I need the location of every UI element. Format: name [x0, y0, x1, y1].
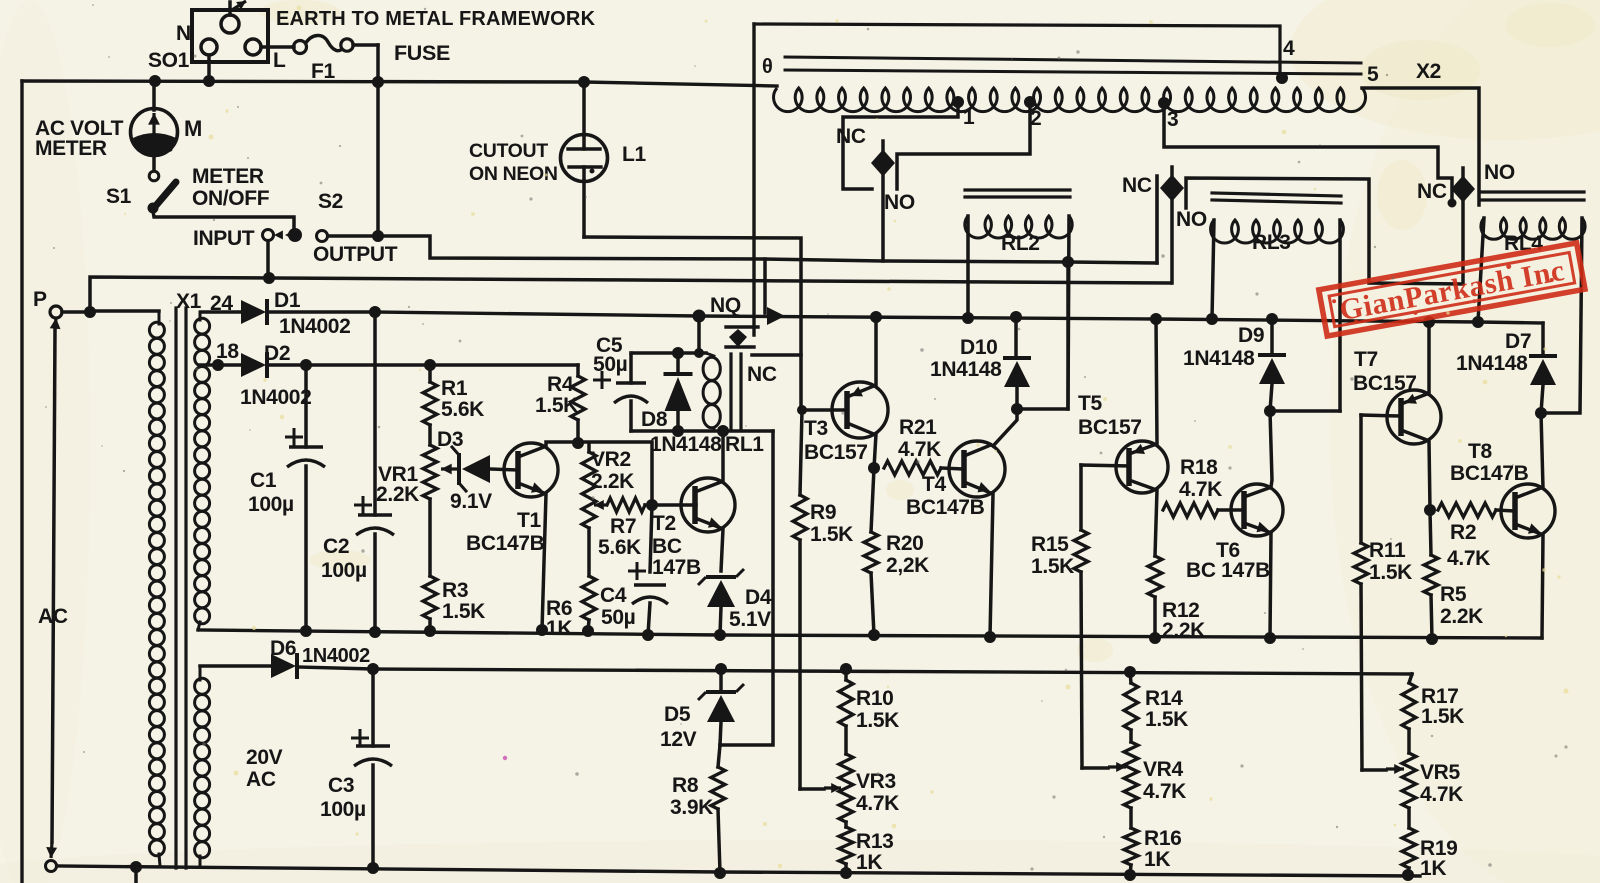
svg-text:1K: 1K — [546, 617, 572, 640]
relay coil RL4 — [1481, 218, 1585, 239]
label D9 — [1238, 324, 1264, 347]
wire output tap down — [763, 259, 767, 313]
label CUTOUT ON NEON — [469, 140, 558, 185]
svg-text:D9: D9 — [1238, 324, 1264, 347]
junction P node — [84, 306, 96, 318]
wire T4 collector — [993, 409, 1017, 446]
svg-text:1.5K: 1.5K — [1145, 708, 1188, 731]
zener D3 — [441, 447, 518, 491]
svg-text:4.7K: 4.7K — [1420, 783, 1463, 806]
junction C3 top — [367, 663, 379, 675]
junction T3 base node — [797, 405, 807, 415]
label NC1 — [836, 125, 866, 148]
svg-text:2,2K: 2,2K — [886, 554, 929, 577]
transistor T7 — [1387, 390, 1441, 444]
svg-text:D7: D7 — [1505, 330, 1531, 353]
wire rail NQ — [269, 312, 1543, 323]
svg-text:BC147B: BC147B — [1450, 462, 1529, 485]
label R18 — [1179, 456, 1222, 501]
relay coil RL3 — [1211, 220, 1344, 243]
junction T7 collector — [1424, 504, 1436, 516]
label FUSE — [394, 41, 450, 65]
contact RL3 pole — [1160, 167, 1184, 283]
label R5 — [1440, 583, 1483, 628]
junction R1 tap — [424, 359, 436, 371]
meter M — [131, 83, 178, 170]
svg-text:VR2: VR2 — [591, 448, 631, 471]
svg-text:T2: T2 — [652, 512, 676, 535]
svg-text:12V: 12V — [660, 728, 697, 751]
wiper VR4 — [1108, 762, 1126, 772]
svg-text:D1: D1 — [274, 289, 301, 312]
potentiometer VR3 — [839, 726, 853, 822]
svg-text:SO1: SO1 — [148, 49, 190, 72]
label T3 — [804, 417, 828, 440]
label D7 — [1505, 330, 1531, 353]
label S2 — [318, 190, 343, 213]
label P — [33, 288, 47, 311]
label T6 type — [1186, 559, 1270, 582]
svg-text:100µ: 100µ — [320, 798, 366, 821]
svg-text:θ: θ — [762, 56, 772, 78]
junction T3 collector — [868, 462, 880, 474]
wire fuse down to output node — [376, 45, 380, 236]
svg-text:T3: T3 — [804, 417, 828, 440]
junction coil top — [694, 348, 704, 358]
resistor R2 — [1438, 503, 1515, 517]
resistor R9 — [793, 410, 807, 789]
transistor T8 — [1501, 484, 1555, 538]
junction meter tap — [149, 75, 161, 87]
junction R3 ground — [424, 625, 436, 637]
junction input rail — [263, 272, 275, 284]
label R19 — [1420, 837, 1457, 880]
label F1 — [311, 60, 335, 83]
diode D2 — [224, 352, 267, 378]
label R3 — [442, 579, 485, 623]
svg-text:R8: R8 — [672, 774, 699, 797]
diode D6 — [200, 653, 297, 679]
label NO2 — [1176, 208, 1207, 231]
label RL1 — [725, 433, 764, 456]
junction T2 base node — [646, 499, 658, 511]
resistor R14 — [1124, 672, 1138, 730]
junction D4 ground — [714, 629, 726, 641]
svg-text:D3: D3 — [437, 428, 463, 451]
junction R4 bottom — [572, 437, 584, 449]
wiper VR3 — [824, 783, 841, 793]
wire NQ to coil — [697, 318, 701, 353]
label NC2 — [1122, 174, 1152, 197]
tap 18 wire — [200, 363, 218, 367]
junction bottom stub — [130, 861, 142, 883]
label D4 value — [729, 608, 771, 631]
transistor T2 — [681, 478, 735, 532]
wire T3 collector — [874, 434, 876, 468]
svg-text:METER: METER — [192, 165, 264, 188]
node INPUT — [263, 230, 274, 241]
svg-text:RL2: RL2 — [1001, 232, 1040, 255]
transistor T6 — [1231, 484, 1283, 536]
label X1 — [176, 290, 202, 313]
svg-text:BC157: BC157 — [804, 441, 868, 464]
junction D8 bottom — [672, 425, 684, 437]
svg-text:1N4002: 1N4002 — [279, 315, 350, 338]
svg-text:R21: R21 — [899, 416, 937, 439]
ac source arrow — [46, 318, 60, 858]
label T7 type — [1353, 372, 1417, 395]
transistor T1 — [504, 443, 558, 497]
label L — [273, 49, 286, 72]
capacitor C3 — [351, 669, 392, 868]
svg-text:P: P — [33, 288, 47, 311]
label D6 value — [302, 645, 370, 667]
svg-text:ON NEON: ON NEON — [469, 163, 558, 185]
svg-text:100µ: 100µ — [321, 559, 367, 582]
resistor R13 — [839, 822, 853, 873]
svg-text:NC: NC — [836, 125, 866, 148]
wire RL2 left lead — [966, 216, 970, 318]
label D5 — [664, 703, 691, 726]
transformer X1 primary — [149, 311, 164, 866]
label R6 — [546, 597, 572, 640]
diode D8 — [664, 353, 693, 431]
svg-text:100µ: 100µ — [248, 493, 294, 516]
svg-text:R13: R13 — [856, 830, 893, 853]
relay RL3 core — [1212, 193, 1341, 203]
junction R20 ground — [868, 629, 880, 641]
junction T3 emitter rail — [870, 311, 882, 323]
junction T7 emitter rail — [1423, 316, 1435, 328]
contact RL3 NO — [1186, 178, 1462, 284]
wire RL2 right lead — [1068, 216, 1069, 409]
label N — [176, 22, 191, 45]
wire INPUT down — [266, 241, 270, 278]
wire T7 collector — [1429, 441, 1430, 510]
svg-text:NO: NO — [884, 191, 915, 214]
svg-text:5.6K: 5.6K — [441, 398, 484, 421]
svg-text:METER: METER — [35, 137, 107, 160]
node P — [50, 306, 62, 318]
junction D10 rail — [1010, 311, 1022, 323]
label R1 — [441, 377, 484, 421]
label C2 — [321, 535, 367, 582]
wire tap2 to NO1 — [897, 102, 1030, 189]
label AC VOLT METER — [35, 117, 124, 160]
label D10 value — [930, 358, 1002, 381]
svg-text:5.6K: 5.6K — [598, 536, 641, 559]
wire T3 base — [802, 408, 846, 412]
label 24 — [210, 292, 233, 315]
junction R12 ground — [1149, 632, 1161, 644]
diode D9 — [1258, 319, 1286, 411]
label VR1 — [376, 463, 419, 506]
svg-text:L1: L1 — [622, 143, 646, 166]
svg-text:50µ: 50µ — [593, 353, 627, 376]
label NQ — [710, 294, 741, 317]
label D2 — [264, 342, 290, 365]
svg-text:T8: T8 — [1468, 440, 1492, 463]
resistor R18 — [1163, 503, 1244, 517]
wire T1 emitter — [542, 494, 546, 630]
wire VR2-R6 — [587, 528, 591, 576]
label D3 — [437, 428, 463, 451]
wire T6 collector to RL3 — [1270, 409, 1340, 413]
junction fuse-rail — [372, 76, 384, 88]
label T1 type — [466, 532, 545, 555]
svg-text:R14: R14 — [1145, 687, 1183, 710]
svg-text:VR5: VR5 — [1420, 761, 1460, 784]
svg-text:9.1V: 9.1V — [450, 490, 492, 513]
svg-text:FUSE: FUSE — [394, 41, 450, 65]
svg-text:S2: S2 — [318, 190, 343, 213]
label NC3 — [1417, 180, 1447, 203]
svg-text:T1: T1 — [517, 509, 541, 532]
label D9 value — [1183, 347, 1255, 370]
label VR2 — [591, 448, 634, 493]
svg-text:X2: X2 — [1416, 60, 1441, 83]
svg-text:1K: 1K — [1420, 857, 1446, 880]
svg-text:C3: C3 — [328, 774, 354, 797]
relay RL4 core — [1482, 192, 1584, 200]
svg-text:R18: R18 — [1180, 456, 1218, 479]
label D8 — [641, 408, 668, 431]
label NO3 — [1484, 161, 1515, 184]
wire T7 emitter — [1427, 323, 1431, 394]
resistor R5 — [1424, 510, 1438, 639]
junction D10 bottom — [1011, 403, 1023, 415]
label R12 — [1162, 599, 1205, 642]
svg-text:R5: R5 — [1440, 583, 1467, 606]
paper tint patches — [260, 0, 1595, 662]
svg-text:NC: NC — [1122, 174, 1152, 197]
svg-text:1N4148: 1N4148 — [1456, 352, 1528, 375]
wire RL1 top — [631, 351, 706, 355]
wire T5 emitter — [1156, 320, 1157, 444]
wiper VR2 — [594, 500, 607, 510]
arrow output onto rail — [767, 307, 785, 325]
svg-text:NQ: NQ — [710, 294, 741, 317]
svg-text:R7: R7 — [610, 515, 636, 538]
junction socket N tap — [203, 75, 215, 87]
transformer X1 lower secondary — [195, 666, 210, 866]
junction RL4 rail — [1472, 316, 1484, 328]
label T5 — [1078, 392, 1102, 415]
label VR3 — [856, 770, 899, 815]
label D2 value — [240, 386, 311, 409]
svg-text:NO: NO — [1484, 161, 1515, 184]
wire rail A — [198, 630, 1542, 638]
label D1 value — [279, 315, 350, 338]
resistor R12 — [1148, 556, 1162, 638]
label T8 — [1468, 440, 1492, 463]
transformer X2 winding — [774, 88, 1366, 112]
label INPUT — [193, 227, 255, 250]
wire rail B — [297, 667, 1412, 674]
label D3 value — [450, 490, 492, 513]
contact RL3 NC bar — [1155, 176, 1159, 263]
svg-text:R11: R11 — [1369, 539, 1406, 562]
zener D4 — [698, 569, 744, 635]
label 3 — [1167, 108, 1178, 131]
diode D1 — [201, 299, 267, 325]
label D1 — [274, 289, 301, 312]
label T1 — [517, 509, 541, 532]
svg-text:N: N — [176, 22, 191, 45]
wire mains rail top — [22, 81, 777, 86]
junction R5 ground — [1426, 633, 1438, 645]
junction R8 ground — [714, 867, 726, 879]
junction R16 ground — [1124, 869, 1136, 881]
label AC source — [38, 605, 68, 628]
label T7 — [1354, 348, 1378, 371]
wire T1 collector — [546, 442, 652, 505]
svg-text:OUTPUT: OUTPUT — [313, 243, 398, 266]
svg-text:R15: R15 — [1031, 533, 1069, 556]
junction D9 rail — [1266, 313, 1278, 325]
svg-text:3.9K: 3.9K — [670, 796, 713, 819]
svg-text:R2: R2 — [1450, 521, 1476, 544]
label R7 — [598, 515, 641, 559]
wire tap1 to NC1 — [843, 102, 958, 189]
svg-text:D10: D10 — [960, 336, 997, 359]
wire RL3 right lead — [1338, 220, 1342, 411]
potentiometer VR1 — [423, 445, 437, 499]
svg-text:1.5K: 1.5K — [810, 523, 853, 546]
svg-text:RL1: RL1 — [725, 433, 764, 456]
label R9 — [810, 501, 853, 546]
label VR4 — [1143, 758, 1186, 803]
label T5 type — [1078, 416, 1142, 439]
svg-text:R4: R4 — [547, 373, 574, 396]
resistor R16 — [1124, 808, 1138, 875]
svg-text:D8: D8 — [641, 408, 668, 431]
junction NQ node — [693, 310, 706, 323]
contact RL2 pole — [871, 141, 895, 261]
wire T7 base — [1361, 415, 1401, 416]
svg-text:3: 3 — [1167, 108, 1178, 131]
label T8 type — [1450, 462, 1529, 485]
svg-text:T7: T7 — [1354, 348, 1378, 371]
svg-text:1.5K: 1.5K — [1369, 561, 1412, 584]
junction RL2 drive — [1062, 256, 1074, 268]
mains socket SO1 — [192, 1, 268, 62]
svg-text:X1: X1 — [176, 290, 202, 313]
svg-text:BC157: BC157 — [1353, 372, 1417, 395]
junction D8 top — [672, 347, 684, 359]
junction C3 ground — [367, 862, 379, 874]
resistor R20 — [864, 468, 878, 635]
wire P to X1 primary — [90, 309, 159, 313]
label RL3 — [1252, 231, 1291, 254]
svg-text:1: 1 — [963, 106, 975, 129]
svg-text:4.7K: 4.7K — [1179, 478, 1222, 501]
wire R9 to VR3 wiper — [800, 787, 824, 791]
svg-text:1.5K: 1.5K — [1421, 705, 1464, 728]
contact RL4 NC tip — [1448, 199, 1457, 208]
svg-text:C1: C1 — [250, 469, 277, 492]
svg-text:1N4148: 1N4148 — [930, 358, 1002, 381]
resistor R19 — [1402, 808, 1416, 875]
wire T3 emitter — [874, 318, 878, 386]
junction C1 ground — [300, 625, 312, 637]
svg-text:2.2K: 2.2K — [591, 470, 634, 493]
resistor R17 — [1402, 674, 1416, 729]
svg-text:4: 4 — [1283, 37, 1295, 60]
label T2 — [652, 512, 676, 535]
label C1 — [248, 469, 294, 516]
label D7 value — [1456, 352, 1528, 375]
label D4 — [745, 586, 772, 609]
label R10 — [856, 687, 899, 732]
svg-text:1.5K: 1.5K — [535, 394, 578, 417]
capacitor C1 — [285, 365, 325, 631]
svg-text:1N4002: 1N4002 — [302, 645, 370, 667]
potentiometer VR5 — [1402, 729, 1416, 808]
wire RL4 right lead — [1541, 218, 1582, 413]
resistor R1 — [423, 365, 437, 425]
wire T2 collector — [721, 433, 725, 481]
relay RL1 contact — [726, 24, 758, 347]
svg-text:RL3: RL3 — [1252, 231, 1291, 254]
junction T2 collector node — [717, 425, 729, 437]
junction C2 tap — [369, 306, 381, 318]
wire tap3 to NC3 — [1164, 103, 1452, 203]
wire L1 to T3 base column — [584, 237, 801, 410]
zener D5 — [698, 669, 744, 745]
junction tap18 — [212, 359, 224, 371]
junction R13 ground — [840, 867, 852, 879]
label T4 type — [906, 496, 985, 519]
wire relay NC branch — [752, 353, 801, 357]
switch S1 — [148, 171, 177, 213]
junction tap2 — [1024, 96, 1036, 108]
wire tap5 to RL4 NO — [1362, 88, 1479, 205]
capacitor C5 — [593, 353, 648, 431]
wire T5 base — [1081, 465, 1129, 466]
label VR5 — [1420, 761, 1463, 806]
label 5 — [1367, 63, 1379, 86]
wire S1 to input selector — [153, 211, 294, 230]
wire R3 ground — [428, 619, 432, 631]
label R15 — [1031, 533, 1074, 578]
switch S2 input wiper — [274, 231, 294, 240]
junction C1 tap — [300, 359, 312, 371]
resistor R8 — [711, 745, 725, 873]
wire RL3 left lead — [1212, 220, 1214, 319]
svg-text:BC147B: BC147B — [906, 496, 985, 519]
junction RL3 rail — [1206, 313, 1218, 325]
svg-text:5: 5 — [1367, 63, 1379, 86]
label 2 — [1030, 107, 1041, 130]
potentiometer VR2 — [582, 443, 596, 528]
resistor R6 — [582, 576, 596, 631]
resistor R15 — [1074, 465, 1088, 768]
svg-text:D5: D5 — [664, 703, 691, 726]
wiper VR5 — [1386, 764, 1404, 774]
label D10 — [960, 336, 997, 359]
svg-text:VR4: VR4 — [1143, 758, 1183, 781]
svg-text:F1: F1 — [311, 60, 335, 83]
svg-text:1.5K: 1.5K — [1031, 555, 1074, 578]
label D5 value — [660, 728, 697, 751]
wire T5 collector — [1155, 490, 1157, 556]
label T2 type — [652, 535, 701, 579]
wire T6 emitter — [1270, 533, 1271, 638]
label RL1 NC — [747, 363, 777, 386]
svg-text:NC: NC — [747, 363, 777, 386]
wire T2 emitter — [721, 529, 723, 571]
